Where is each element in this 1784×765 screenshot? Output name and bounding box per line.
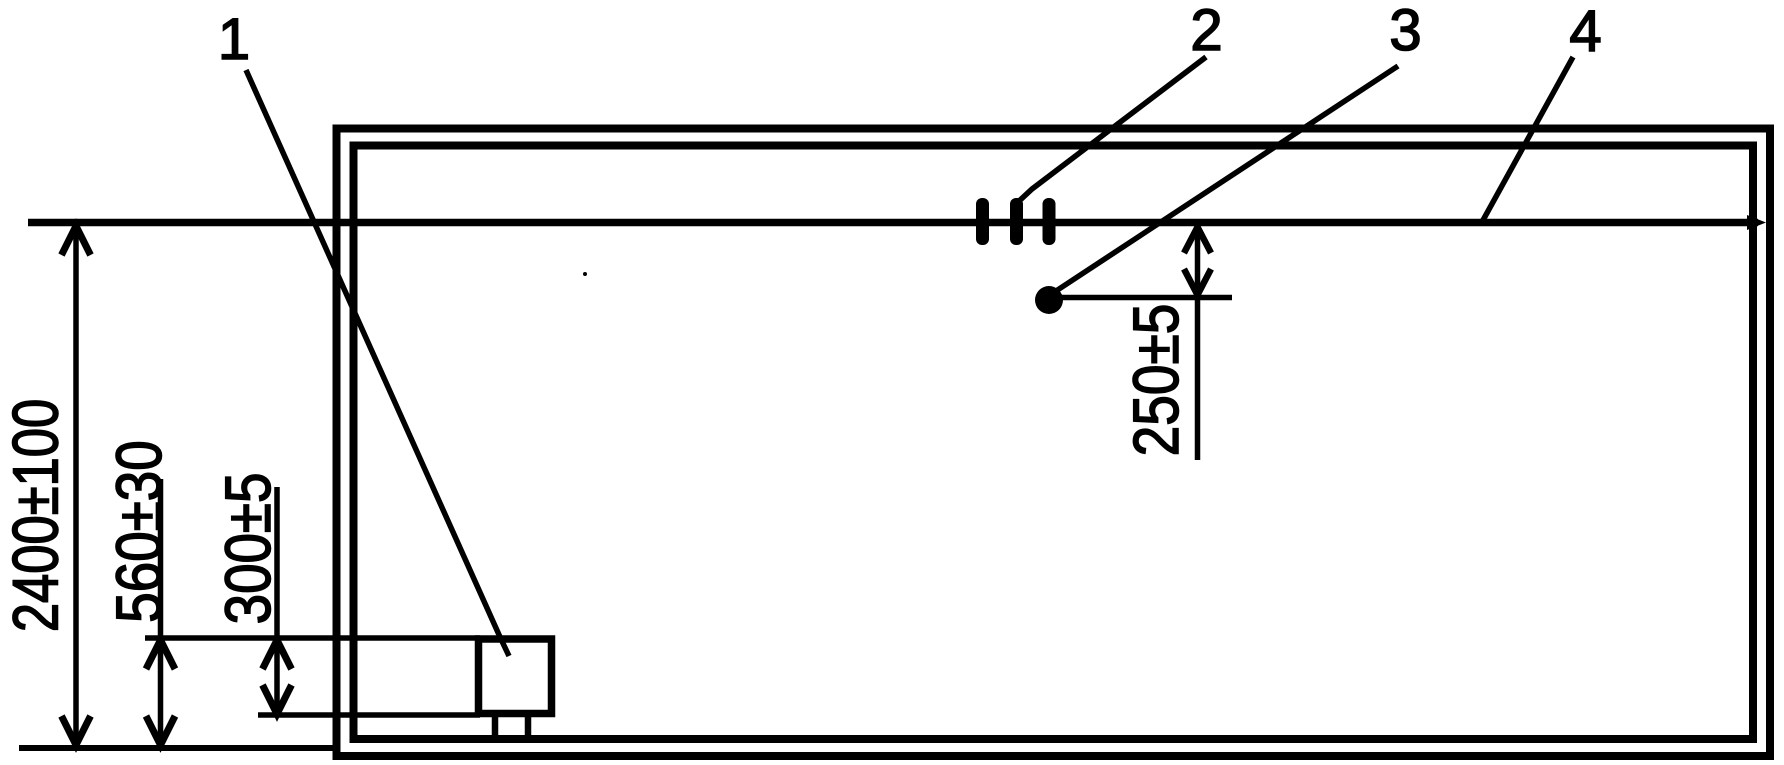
svg-text:300±5: 300±5 [212, 473, 284, 625]
svg-text:560±30: 560±30 [103, 440, 175, 622]
svg-text:4: 4 [1569, 0, 1601, 64]
svg-text:1: 1 [218, 7, 250, 72]
svg-text:2400±100: 2400±100 [1, 399, 72, 632]
svg-text:2: 2 [1190, 0, 1222, 63]
svg-text:250±5: 250±5 [1120, 304, 1192, 457]
svg-text:3: 3 [1389, 0, 1421, 63]
